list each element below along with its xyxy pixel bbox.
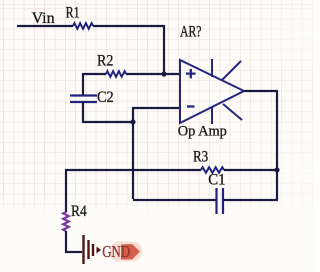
- resistor R3: [201, 167, 224, 173]
- wire left rail down to R4: [65, 169, 67, 212]
- op-amp AR? triangle body: [180, 60, 244, 123]
- wire C2 top lead: [82, 73, 84, 95]
- wire op-amp output: [244, 90, 277, 92]
- op-amp minus input marker: [187, 105, 195, 107]
- op-amp negative supply pin: [211, 107, 213, 124]
- op-amp positive supply pin: [211, 59, 213, 77]
- wire R1 to corner: [93, 25, 164, 27]
- svg-text:R4: R4: [71, 203, 87, 220]
- wire Vin input: [17, 25, 73, 27]
- svg-text:C2: C2: [97, 89, 114, 106]
- wire output down right side: [276, 90, 278, 200]
- wire inverting input branch: [133, 108, 180, 199]
- wire C1 to right rail: [223, 199, 278, 201]
- svg-text:R2: R2: [97, 53, 113, 70]
- op-amp offset pin lower right: [223, 104, 242, 120]
- wire R3 to output junction: [224, 169, 277, 171]
- ground GND bars: [84, 235, 94, 264]
- op-amp offset pin upper right: [222, 61, 241, 80]
- wire R4 to ground: [66, 231, 82, 252]
- node junction C2 to inverting branch: [130, 119, 135, 124]
- node junction at plus input: [161, 71, 166, 76]
- resistor R4: [63, 212, 69, 231]
- svg-text:Op Amp: Op Amp: [178, 124, 227, 140]
- svg-text:C1: C1: [208, 172, 225, 189]
- ground red arrowhead: [121, 244, 140, 260]
- op-amp plus input marker: [186, 69, 196, 79]
- wire C2 bottom lead: [83, 102, 133, 122]
- ground glow: [110, 242, 142, 262]
- wire R2 to op-amp plus input: [126, 73, 180, 75]
- resistor R2: [106, 71, 126, 77]
- wire C1 rail left part: [133, 199, 216, 201]
- ground small triangle: [97, 247, 102, 254]
- svg-text:AR?: AR?: [180, 24, 202, 41]
- wire R2 left: [83, 73, 106, 75]
- node junction feedback at output: [274, 167, 279, 172]
- wire down to plus node: [163, 25, 165, 74]
- wire feedback rail R3 left part: [66, 169, 201, 171]
- svg-text:R1: R1: [66, 5, 80, 22]
- svg-text:GND: GND: [102, 242, 130, 261]
- svg-text:Vin: Vin: [32, 10, 55, 27]
- capacitor C1: [217, 188, 224, 214]
- resistor R1: [73, 23, 93, 29]
- svg-text:R3: R3: [193, 149, 208, 166]
- capacitor C2: [70, 96, 97, 103]
